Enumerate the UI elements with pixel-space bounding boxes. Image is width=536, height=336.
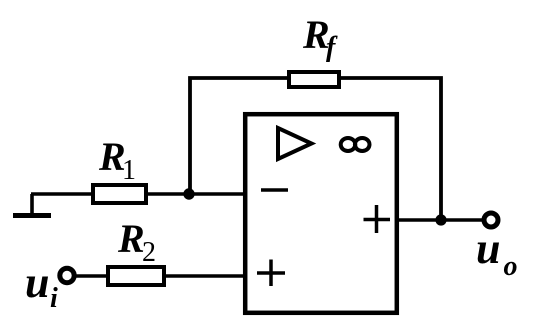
resistor R1 (93, 185, 146, 203)
label R1 (98, 134, 136, 186)
node: inverting input junction (183, 188, 194, 199)
wire: feedback branch from inverting node up, across top, down to output node (190, 78, 441, 220)
wire: ground to R1 (31, 192, 95, 196)
wire: R1 to inverting input of op-amp (144, 192, 245, 196)
svg-text:i: i (50, 283, 58, 314)
wire: u_i terminal to R2 (76, 274, 110, 278)
ground (13, 194, 51, 216)
svg-text:u: u (25, 258, 49, 307)
label u_i (25, 258, 58, 314)
op-amp U1 body (245, 114, 397, 313)
terminal u_o (484, 213, 498, 227)
svg-text:o: o (504, 251, 518, 282)
infinity gain symbol (341, 138, 370, 151)
inverting input minus sign (261, 188, 288, 192)
svg-text:f: f (326, 32, 338, 63)
terminal u_i (60, 268, 74, 282)
label u_o (476, 224, 518, 282)
label Rf (302, 12, 338, 63)
wire: R2 to non-inverting input of op-amp (162, 274, 245, 278)
label R2 (117, 216, 156, 268)
svg-text:R: R (117, 216, 145, 261)
resistor R2 (108, 267, 164, 285)
wire: op-amp output to u_o terminal (397, 218, 482, 222)
resistor Rf (289, 72, 339, 87)
op-amp gain triangle (278, 128, 312, 159)
node: output junction (435, 214, 446, 225)
svg-text:u: u (476, 224, 500, 273)
svg-text:1: 1 (122, 155, 136, 186)
output plus sign (364, 205, 391, 233)
svg-text:2: 2 (142, 237, 156, 268)
non-inverting input plus sign (257, 260, 285, 287)
